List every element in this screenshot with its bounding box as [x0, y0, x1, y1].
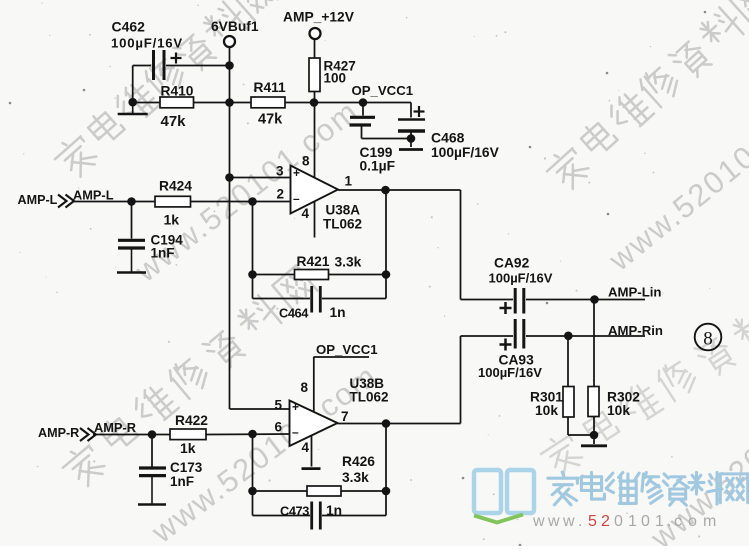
svg-text:0.1µF: 0.1µF — [360, 159, 396, 174]
svg-text:100µF/16V: 100µF/16V — [478, 365, 542, 380]
svg-text:AMP-L: AMP-L — [18, 193, 58, 207]
svg-text:6: 6 — [275, 420, 283, 435]
svg-text:c: c — [674, 513, 682, 530]
svg-text:R421: R421 — [297, 254, 330, 269]
svg-text:OP_VCC1: OP_VCC1 — [352, 83, 414, 98]
svg-text:1k: 1k — [180, 440, 196, 456]
svg-text:C468: C468 — [431, 130, 465, 146]
svg-text:–: – — [293, 192, 300, 206]
svg-text:o: o — [688, 513, 697, 530]
svg-text:R411: R411 — [254, 80, 287, 95]
svg-text:100µF/16V: 100µF/16V — [489, 271, 553, 286]
svg-text:AMP-R: AMP-R — [94, 420, 136, 435]
svg-text:6VBuf1: 6VBuf1 — [211, 19, 259, 34]
svg-text:0: 0 — [641, 513, 650, 530]
svg-text:TL062: TL062 — [350, 390, 389, 405]
svg-text:0: 0 — [614, 513, 623, 530]
svg-text:8: 8 — [302, 154, 310, 169]
svg-text:2: 2 — [601, 513, 610, 530]
svg-text:w: w — [532, 513, 545, 530]
svg-text:7: 7 — [341, 409, 349, 424]
svg-text:CA92: CA92 — [494, 256, 530, 271]
svg-text:1: 1 — [628, 513, 637, 530]
svg-text:AMP-R: AMP-R — [38, 426, 79, 440]
svg-text:100µF/16V: 100µF/16V — [111, 36, 183, 51]
svg-text:4: 4 — [302, 206, 310, 221]
svg-text:47k: 47k — [258, 112, 283, 128]
svg-text:2: 2 — [277, 187, 285, 202]
svg-text:AMP-Rin: AMP-Rin — [608, 323, 663, 338]
svg-text:–: – — [292, 425, 299, 439]
svg-text:C462: C462 — [112, 19, 146, 35]
svg-text:.: . — [578, 513, 582, 530]
svg-text:5: 5 — [588, 513, 597, 530]
svg-text:+: + — [292, 400, 299, 414]
svg-text:C464: C464 — [279, 306, 309, 321]
svg-text:1nF: 1nF — [151, 246, 175, 261]
svg-text:1n: 1n — [326, 503, 342, 518]
svg-text:w: w — [547, 513, 560, 530]
svg-text:5: 5 — [275, 398, 283, 413]
svg-text:C473: C473 — [280, 504, 309, 519]
svg-text:w: w — [562, 513, 575, 530]
svg-text:AMP-L: AMP-L — [73, 188, 114, 203]
svg-text:3.3k: 3.3k — [342, 470, 369, 485]
svg-text:R410: R410 — [161, 84, 194, 99]
svg-text:U38A: U38A — [326, 203, 361, 218]
svg-text:R422: R422 — [175, 413, 208, 428]
svg-text:TL062: TL062 — [323, 217, 362, 232]
svg-text:100µF/16V: 100µF/16V — [431, 145, 500, 160]
svg-text:+: + — [293, 166, 300, 180]
svg-text:1k: 1k — [164, 212, 180, 228]
svg-text:AMP_+12V: AMP_+12V — [283, 10, 355, 25]
svg-text:1: 1 — [655, 513, 664, 530]
svg-text:8: 8 — [301, 380, 309, 395]
svg-text:AMP-Lin: AMP-Lin — [608, 285, 661, 300]
svg-text:3.3k: 3.3k — [335, 255, 362, 270]
svg-text:1nF: 1nF — [170, 474, 194, 489]
svg-text:100: 100 — [324, 71, 347, 86]
svg-text:R424: R424 — [159, 179, 192, 194]
svg-text:R426: R426 — [342, 454, 375, 469]
svg-text:1: 1 — [345, 174, 353, 189]
svg-text:.: . — [667, 513, 671, 530]
svg-text:10k: 10k — [607, 403, 630, 418]
svg-text:3: 3 — [276, 164, 284, 179]
svg-text:m: m — [703, 513, 716, 530]
svg-text:10k: 10k — [535, 403, 558, 418]
svg-text:OP_VCC1: OP_VCC1 — [316, 342, 378, 357]
svg-text:1n: 1n — [330, 305, 346, 320]
svg-text:47k: 47k — [161, 113, 187, 130]
svg-text:8: 8 — [703, 329, 713, 350]
svg-text:4: 4 — [302, 440, 310, 455]
svg-text:C173: C173 — [170, 460, 203, 475]
